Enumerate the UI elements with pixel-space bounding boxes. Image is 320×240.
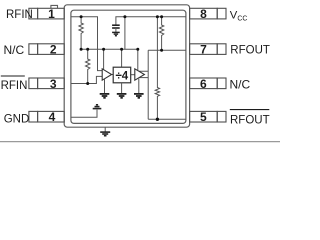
ground stem under divider [121, 83, 123, 94]
resistor R3 [159, 17, 163, 51]
svg-text:N/C: N/C [4, 43, 25, 57]
svg-text:N/C: N/C [230, 78, 251, 92]
ground stem under A2 [138, 79, 140, 94]
svg-text:8: 8 [200, 7, 207, 21]
svg-text:GND: GND [4, 113, 30, 125]
pin 4 box [29, 111, 64, 122]
ground under A2 [134, 94, 144, 98]
capacitor C1 plates [112, 25, 120, 28]
inner functional boundary [71, 10, 186, 123]
wire RFIN-bar from pin3 edge to divider input [71, 76, 102, 83]
svg-text:6: 6 [200, 77, 207, 91]
svg-text:RFOUT: RFOUT [230, 44, 270, 56]
resistor R2 [86, 49, 90, 83]
overline for RFOUT-bar [230, 109, 269, 111]
op-amp buffer A1 [102, 69, 111, 80]
pin 1 box [29, 8, 64, 19]
ground stem under A1 [104, 79, 106, 94]
pin 2 box [29, 44, 64, 55]
pin 5 box [190, 111, 226, 122]
svg-text:2: 2 [50, 43, 57, 57]
overline for RFIN-bar [1, 75, 25, 77]
svg-text:5: 5 [200, 110, 207, 124]
wire RFOUT to pin7 [148, 49, 186, 51]
pin 7 box [190, 44, 226, 55]
ground under C1 [112, 32, 120, 35]
capacitor C1 lower lead [115, 28, 117, 32]
svg-text:RFOUT: RFOUT [230, 115, 270, 127]
wire amp A2 top output [139, 50, 149, 119]
svg-text:÷4: ÷4 [115, 70, 128, 82]
op-amp buffer A2 [135, 69, 145, 80]
junction dots [80, 15, 164, 121]
wire RFOUT-bar to pin5 [148, 118, 186, 120]
wire bias bus [81, 48, 138, 50]
pin 8 box [190, 8, 226, 19]
wire amp A1 to divider box [112, 74, 114, 76]
bottom separator rule [0, 141, 280, 143]
pin 6 box [190, 78, 226, 89]
ground under A1 [100, 94, 110, 98]
svg-text:3: 3 [50, 77, 57, 91]
wire bus to divider box [121, 49, 123, 67]
pin 3 box [29, 78, 64, 89]
pin 1 index bump [51, 5, 58, 8]
svg-text:4: 4 [49, 110, 56, 124]
wire RFIN from pin1 edge to divider input [71, 17, 102, 71]
svg-text:7: 7 [200, 43, 207, 57]
resistor R4 [155, 17, 159, 120]
svg-text:VCC: VCC [230, 9, 248, 22]
svg-text:1: 1 [48, 7, 55, 21]
wire Vcc rail from pin8 [116, 17, 186, 25]
wire Vcc drop to bias bus [124, 17, 126, 50]
wire GND pin4 [71, 110, 97, 118]
wire bus to amp A2 [137, 49, 139, 70]
svg-text:RFIN: RFIN [6, 9, 33, 21]
ground below package [104, 127, 106, 131]
wire bus to amp A1 [103, 49, 105, 69]
ground under divider [117, 94, 127, 98]
resistor R1 [79, 17, 83, 50]
divider box U2 [113, 67, 131, 83]
inverted ground at pin4 [93, 105, 102, 109]
wire amp A2 bottom output [139, 77, 148, 79]
svg-text:RFIN: RFIN [1, 80, 28, 92]
wire divider box to amp A2 [131, 74, 135, 76]
package body outline U1 [64, 5, 189, 127]
